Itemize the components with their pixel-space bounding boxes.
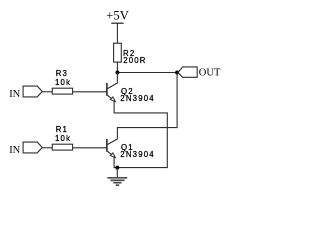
- svg-text:10k: 10k: [55, 134, 71, 143]
- svg-text:IN: IN: [9, 89, 20, 100]
- transistor Q2 emitter and emitter tie wires: [107, 95, 115, 102]
- svg-text:+5V: +5V: [106, 8, 129, 22]
- junction node ground: [115, 166, 119, 170]
- transistor Q2 collector: [107, 73, 118, 90]
- ground stem: [116, 168, 118, 178]
- port IN (top) tag: [23, 86, 42, 97]
- ground bar 4: [116, 184, 120, 186]
- svg-text:10k: 10k: [55, 78, 71, 87]
- wire IN tag to R1: [42, 147, 52, 149]
- svg-text:IN: IN: [9, 145, 20, 156]
- junction node OUT: [175, 71, 179, 75]
- junction node R2/Q2: [115, 71, 119, 75]
- svg-text:2N3904: 2N3904: [120, 94, 155, 103]
- wire IN tag to R3: [42, 91, 52, 93]
- wire R3 to Q2 base: [73, 91, 107, 93]
- svg-text:OUT: OUT: [199, 67, 221, 78]
- svg-text:2N3904: 2N3904: [120, 150, 155, 159]
- wire R2 to node: [116, 62, 118, 72]
- transistor Q2 emitter arrow: [110, 97, 115, 102]
- ground bar 2: [110, 179, 124, 181]
- wire +5V to R2: [116, 23, 118, 43]
- wire node to OUT: [117, 72, 177, 74]
- port OUT tag: [178, 67, 197, 77]
- ground bar 1: [107, 177, 127, 179]
- ground bar 3: [113, 182, 121, 184]
- resistor R2: [114, 43, 122, 62]
- resistor R3: [52, 88, 72, 94]
- svg-text:R1: R1: [56, 125, 68, 134]
- transistor Q1 emitter arrow: [110, 153, 115, 158]
- transistor Q1 emitter diagonal: [107, 151, 115, 158]
- port IN (bottom) tag: [23, 142, 42, 153]
- transistor Q2 base bar: [106, 83, 108, 96]
- svg-text:200R: 200R: [123, 56, 146, 65]
- power bar symbol: [111, 22, 123, 24]
- wire R1 to Q1 base: [73, 147, 107, 149]
- resistor R1: [52, 144, 72, 150]
- wire Q2 emitter to Q1 emitter tie: [114, 101, 167, 167]
- svg-text:R3: R3: [56, 69, 68, 78]
- transistor Q1 base bar: [106, 139, 108, 152]
- wire OUT node to Q1 collector: [107, 73, 177, 145]
